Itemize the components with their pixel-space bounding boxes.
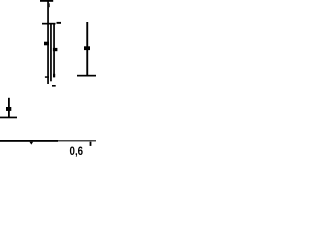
right data marker square: [84, 46, 90, 50]
data marker square (floating right of mid cap): [57, 22, 62, 24]
error-bar vertical line C: [53, 24, 55, 77]
x axis tick right: [90, 142, 92, 146]
data marker square on line A: [44, 42, 49, 46]
left dash near line A bottom: [45, 76, 49, 78]
error-bar vertical line A: [47, 0, 49, 84]
right error-bar vertical line: [86, 22, 88, 76]
error-bar vertical line B: [50, 24, 52, 81]
data marker square on line C: [53, 48, 58, 51]
line C thick lower end: [53, 74, 55, 78]
right error-bar bottom cap: [77, 75, 96, 77]
bottom-left error-bar bottom cap: [0, 117, 17, 119]
x axis line right segment: [58, 140, 96, 141]
bottom-left error-bar vertical line: [8, 98, 10, 118]
x axis tick left: [29, 142, 33, 145]
bottom cap dash under line B: [52, 85, 56, 87]
error-bar mid cap: [42, 23, 56, 25]
bottom-left data marker square: [6, 107, 11, 111]
x axis line: [0, 140, 58, 142]
error-bar line B top stub: [48, 3, 51, 7]
error-bar top cap (series cluster): [40, 0, 53, 2]
svg-text:0,6: 0,6: [70, 144, 84, 158]
